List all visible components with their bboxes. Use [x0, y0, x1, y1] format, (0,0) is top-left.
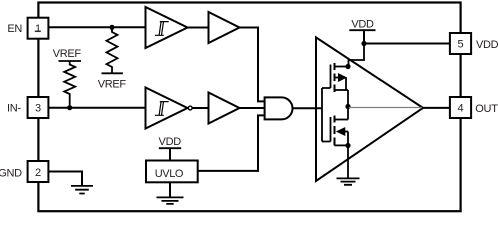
wire VDD node to pin 5 — [364, 43, 450, 45]
wire U4 output to AND input B — [240, 107, 265, 109]
node IN-/R junction — [67, 105, 72, 110]
wire GND pin to ground — [48, 172, 82, 186]
drain lead — [335, 119, 349, 121]
node VDD — [361, 41, 366, 46]
schmitt inverter U3 (IN- path) — [146, 88, 188, 129]
wire IN- pin to Schmitt input — [48, 107, 146, 109]
buffer U4 (IN- path) — [209, 93, 240, 124]
hysteresis symbol U1 — [155, 22, 169, 36]
inverter bubble U3 — [188, 106, 192, 110]
svg-text:2: 2 — [35, 167, 41, 179]
pin 5 box (VDD) — [450, 33, 471, 54]
svg-text:GND: GND — [0, 168, 22, 180]
ground (GND pin) — [71, 186, 93, 194]
VREF rail bar (above left resistor) — [59, 60, 82, 62]
svg-text:3: 3 — [35, 103, 41, 115]
wire output node to tip (thin) — [348, 107, 422, 109]
svg-text:VREF: VREF — [98, 79, 127, 91]
svg-text:VDD: VDD — [476, 39, 498, 51]
ground (driver) — [337, 178, 360, 184]
transistor Q1 (high side) — [331, 63, 349, 92]
svg-text:OUT: OUT — [475, 103, 498, 115]
wire Q2 drain to output node — [347, 107, 349, 120]
wire UVLO output to AND input C — [198, 115, 265, 170]
VDD rail bar (driver) — [349, 29, 375, 31]
svg-text:VDD: VDD — [351, 18, 374, 30]
wire AND output to driver input — [293, 107, 323, 109]
wire Q2 source to ground — [347, 146, 349, 179]
UVLO block — [146, 161, 198, 183]
channel segments — [334, 63, 336, 92]
svg-text:5: 5 — [457, 39, 463, 51]
wire EN pin to Schmitt input — [48, 26, 146, 28]
body lead with arrow — [337, 128, 345, 135]
VREF rail bar (below right resistor) — [102, 72, 123, 74]
node Q2 source — [345, 143, 350, 148]
wire U2 output to AND input A — [240, 28, 265, 102]
svg-text:4: 4 — [457, 103, 463, 115]
VDD rail bar (above UVLO) — [159, 147, 181, 149]
wire gate bus — [322, 88, 331, 142]
drain lead — [335, 66, 349, 68]
svg-text:IN-: IN- — [7, 103, 21, 115]
svg-text:UVLO: UVLO — [155, 168, 184, 180]
pin 1 box (EN) — [28, 18, 49, 39]
node Q1 drain — [345, 64, 350, 69]
pin 2 box (GND) — [28, 161, 49, 182]
schmitt buffer U1 (EN path) — [146, 7, 188, 48]
output driver stage U6 (triangle) — [316, 37, 423, 181]
hysteresis symbol U3 — [155, 102, 169, 116]
pin 4 box (OUT) — [450, 97, 471, 118]
resistor R (VREF to IN-, left) — [64, 61, 75, 108]
gate bar — [330, 65, 332, 89]
wire VDD bar to VDD node — [363, 30, 365, 43]
ground (UVLO) — [157, 197, 184, 204]
svg-text:1: 1 — [35, 23, 41, 35]
body lead with arrow — [335, 77, 339, 79]
AND gate U5 — [265, 97, 293, 119]
resistor R (EN pull, right) — [107, 27, 118, 73]
wire driver output to pin 4 — [423, 107, 450, 109]
wire VDD node to Q1 drain — [349, 44, 365, 67]
svg-text:EN: EN — [7, 23, 22, 35]
node switch output — [345, 104, 350, 109]
source lead — [335, 89, 349, 91]
wire VDD bar to UVLO — [169, 148, 171, 160]
source lead — [335, 144, 349, 146]
wire Q1 source to output node — [347, 90, 349, 107]
svg-text:VDD: VDD — [159, 136, 182, 148]
svg-text:VREF: VREF — [53, 48, 82, 60]
transistor Q2 (low side) — [331, 116, 349, 146]
wire UVLO to ground — [169, 182, 171, 197]
node EN/R2 junction — [109, 25, 114, 30]
channel segments — [334, 116, 336, 146]
gate bar — [330, 117, 332, 142]
buffer U2 (EN path) — [209, 12, 240, 43]
pin 3 box (IN-) — [28, 97, 49, 118]
wire U3 to buffer U4 — [192, 107, 208, 109]
IC outline border — [38, 3, 460, 212]
wire U1 to buffer U2 — [188, 27, 209, 29]
